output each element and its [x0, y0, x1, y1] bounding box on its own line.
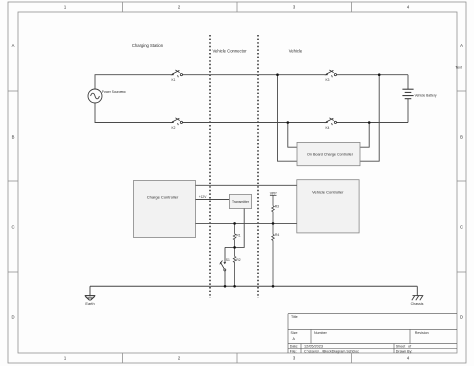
- junction on top AC line at OBCC branch: [276, 73, 279, 76]
- wire: K4 line to OBCC upper-right port: [360, 123, 369, 148]
- svg-text:A: A: [12, 43, 15, 48]
- svg-text:VPP: VPP: [270, 191, 278, 195]
- battery BT1 plates: [402, 89, 413, 99]
- battery BT1 vertical leads: [407, 75, 409, 123]
- svg-text:C:\Users\...\BlockDiagram.SchD: C:\Users\...\BlockDiagram.SchDoc: [304, 349, 359, 353]
- svg-text:R4: R4: [275, 233, 279, 237]
- wire: transmitter output down: [225, 209, 244, 248]
- svg-text:Vehicle Controller: Vehicle Controller: [312, 189, 344, 194]
- junction at R1 top: [233, 222, 236, 225]
- svg-text:Number: Number: [314, 331, 328, 335]
- svg-text:Charge Controller: Charge Controller: [147, 195, 179, 200]
- svg-text:R3: R3: [275, 204, 279, 208]
- svg-text:C: C: [460, 225, 463, 230]
- junction at R3/R4 node: [272, 222, 275, 225]
- earth ground: [85, 286, 96, 300]
- svg-text:Charging Station: Charging Station: [132, 43, 164, 48]
- svg-text:Chassis: Chassis: [411, 302, 424, 306]
- svg-text:Date:: Date:: [290, 344, 299, 348]
- switch K3: [325, 70, 337, 77]
- Charge Controller block: [134, 181, 196, 238]
- svg-text:Size: Size: [291, 331, 298, 335]
- svg-text:K4: K4: [326, 126, 330, 130]
- wire: control pilot top (CC to VC): [196, 184, 297, 186]
- svg-text:R2: R2: [236, 258, 240, 262]
- svg-text:K2: K2: [172, 126, 176, 130]
- svg-text:D: D: [11, 315, 14, 320]
- resistor R3: [272, 195, 275, 223]
- junction on bottom AC line left OBCC stub: [287, 121, 290, 124]
- junction R4 to ground bus: [272, 285, 275, 288]
- Transmitter block: [229, 195, 251, 209]
- svg-text:C: C: [11, 225, 14, 230]
- svg-text:Transmitter: Transmitter: [232, 200, 250, 204]
- svg-text:Sheet of: Sheet of: [396, 344, 411, 348]
- wire: K4 line to OBCC upper-left port: [288, 123, 297, 148]
- chassis ground: [412, 286, 424, 300]
- wire: top AC line: [95, 75, 408, 89]
- svg-text:12/05/2023: 12/05/2023: [304, 344, 323, 348]
- svg-text:Vehicle: Vehicle: [289, 49, 303, 54]
- wire: top line to OBCC lower-right port: [360, 75, 379, 162]
- title block: [288, 314, 457, 353]
- junction R2 to ground bus: [233, 285, 236, 288]
- switch K4: [325, 118, 337, 125]
- wire: ground bus: [90, 285, 417, 287]
- svg-text:S1: S1: [226, 258, 230, 262]
- resistor R1: [233, 223, 236, 247]
- svg-text:TBD: TBD: [121, 90, 126, 94]
- switch K1: [171, 70, 183, 77]
- wire: proximity line bottom (CC to VC): [196, 222, 297, 224]
- svg-text:Vehicle Connector: Vehicle Connector: [213, 49, 248, 54]
- svg-text:Drawn By:: Drawn By:: [396, 349, 413, 353]
- svg-text:On Board Charge Controller: On Board Charge Controller: [307, 153, 354, 157]
- boundary dotted line left: [209, 35, 211, 298]
- svg-text:R1: R1: [236, 234, 240, 238]
- svg-text:Title: Title: [291, 315, 298, 319]
- boundary dotted line right: [257, 35, 259, 298]
- svg-text:K3: K3: [326, 78, 330, 82]
- wire: top line to OBCC lower-left port: [278, 75, 298, 162]
- power source G1: [88, 89, 102, 103]
- svg-text:Text: Text: [455, 66, 462, 70]
- wire: 12V line CC to Transmitter: [196, 199, 230, 201]
- svg-text:B: B: [460, 135, 463, 140]
- junction at R1/R2 node: [233, 246, 236, 249]
- svg-text:File:: File:: [290, 349, 297, 353]
- switch S1: [220, 247, 227, 286]
- resistor R2: [233, 247, 236, 286]
- svg-text:Power Source: Power Source: [102, 90, 122, 94]
- svg-text:Earth: Earth: [85, 301, 94, 306]
- Vehicle Controller block: [297, 180, 359, 233]
- junction on top AC line at battery branch: [378, 73, 381, 76]
- svg-text:Vehicle Battery: Vehicle Battery: [415, 93, 437, 97]
- resistor R4: [272, 223, 275, 286]
- switch K2: [171, 118, 183, 125]
- svg-text:B: B: [12, 135, 15, 140]
- On Board Charge Controller block: [297, 142, 360, 165]
- svg-text:D: D: [460, 315, 463, 320]
- svg-text:+12V: +12V: [199, 195, 207, 199]
- wire: bottom AC line: [95, 103, 408, 123]
- junction on bottom AC line right OBCC stub: [368, 121, 371, 124]
- svg-text:A: A: [460, 43, 463, 48]
- svg-text:Revision: Revision: [415, 331, 429, 335]
- junction S1 to ground bus: [224, 285, 227, 288]
- svg-text:K1: K1: [172, 78, 176, 82]
